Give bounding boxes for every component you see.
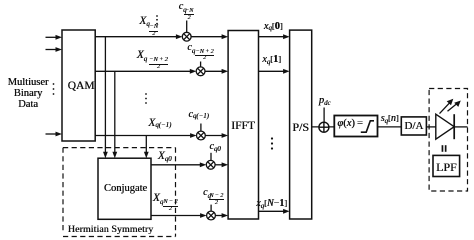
P/S block — [290, 30, 312, 219]
wire: input arrow 2 into QAM — [46, 49, 57, 51]
wire: c3 vertical into multiplier 3 — [200, 124, 202, 132]
multiplier M4 — [206, 160, 215, 169]
label: x_q[N-1] — [256, 199, 287, 209]
LED diode D1 — [436, 114, 454, 139]
adder (DC bias) — [319, 122, 329, 132]
label: X_q(-1) — [148, 118, 171, 130]
label: X_q0 — [158, 151, 172, 163]
label: X_q((-N+2)/2) — [137, 50, 147, 62]
label: c_q(-N/2) — [179, 2, 187, 12]
multiplier M3 — [197, 131, 206, 140]
multiplier M2 — [196, 67, 205, 76]
wire: row4 multiplier to IFFT — [215, 164, 223, 166]
label: frac X5 — [163, 199, 178, 212]
label: X_q(-N/2) — [139, 16, 149, 28]
wire: p_dc vertical into adder — [323, 108, 325, 123]
label: x_q[0] — [264, 22, 283, 32]
wire: phi to D/A — [378, 126, 402, 128]
wire: c2 vertical into multiplier 2 — [200, 62, 202, 67]
multiplier M1 — [182, 32, 191, 41]
label: QAM — [65, 81, 98, 93]
wire: row3 QAM to multiplier — [95, 135, 191, 137]
label: IFFT — [228, 121, 258, 133]
label: frac X1 — [149, 24, 159, 37]
label: phi(x)= — [337, 119, 363, 130]
label: Multiuser Binary Data — [0, 78, 56, 111]
wire: row5 Conjugate to multiplier — [151, 215, 201, 217]
wire: row1 multiplier to IFFT — [191, 36, 223, 38]
label: c_q((N-2)/2) — [203, 188, 211, 198]
ellipsis dots IFFT to P/S — [271, 137, 273, 149]
ellipsis dots near Binary — [53, 83, 55, 95]
label: c_q(-1) — [188, 110, 208, 120]
wire: IFFT to P/S x_q[N-1] — [259, 210, 285, 212]
wire: c5 vertical into multiplier 5 — [210, 205, 212, 212]
saturation glyph inside phi block — [361, 121, 374, 132]
label: P/S — [290, 121, 312, 133]
wire: row3 multiplier to IFFT — [205, 135, 223, 137]
label: c_q0 — [209, 142, 220, 152]
D/A block — [401, 117, 426, 135]
label: x_q[1] — [262, 55, 281, 65]
wire: row5 multiplier to IFFT — [215, 215, 223, 217]
wire: tap 3 down to Conjugate — [145, 136, 147, 154]
label: c_q((-N+2)/2) — [187, 43, 195, 53]
label: p_dc — [319, 96, 331, 107]
label: frac c1 — [184, 8, 193, 21]
ellipsis dots left middle — [145, 93, 147, 104]
label: X_q((N-2)/2) — [153, 193, 163, 205]
multiplier M5 — [207, 211, 216, 220]
LED emission arrow 1 — [440, 103, 450, 114]
wire: D/A to LED — [426, 126, 435, 128]
clipping block phi — [334, 116, 377, 137]
wire: input arrow 3 into QAM — [46, 133, 57, 135]
label: frac c5 — [209, 193, 224, 206]
label: frac X2 — [149, 57, 169, 70]
LED emission arrow 2 — [448, 103, 458, 111]
wire: c1 vertical into multiplier 1 — [186, 21, 188, 33]
wire: row2 multiplier to IFFT — [205, 70, 223, 72]
wire: row2 QAM to multiplier — [95, 70, 191, 72]
wire: IFFT to P/S x_q[0] — [259, 36, 285, 38]
LPF block — [433, 155, 460, 176]
wire: c4 vertical into multiplier 4 — [210, 153, 212, 161]
equivalence bars between LED and LPF — [442, 145, 444, 152]
wire: row1 QAM to multiplier — [95, 36, 177, 38]
label: D/A — [401, 121, 426, 132]
wire: IFFT to P/S x_q[1] — [259, 70, 285, 72]
wire: row4 Conjugate to multiplier — [151, 164, 201, 166]
label: s_q[n] — [381, 114, 399, 124]
label: Conjugate — [99, 184, 152, 195]
wire: input arrow 1 into QAM — [46, 36, 57, 38]
wire: tap 2 down to Conjugate — [114, 71, 116, 153]
wire: main line P/S to adder to phi — [312, 126, 335, 128]
label: Hermitian Symmetry — [68, 225, 153, 235]
LED dashed box — [429, 89, 467, 192]
label: LPF — [433, 161, 460, 173]
wire: LED output — [454, 126, 467, 128]
Hermitian Symmetry dashed box — [63, 148, 176, 237]
label: frac c2 — [195, 49, 214, 62]
Conjugate block — [98, 158, 151, 219]
wire: tap 1 down to Conjugate — [104, 37, 106, 154]
QAM block — [62, 30, 95, 141]
ellipsis dots above X row1 — [156, 15, 158, 24]
IFFT block — [228, 31, 258, 220]
